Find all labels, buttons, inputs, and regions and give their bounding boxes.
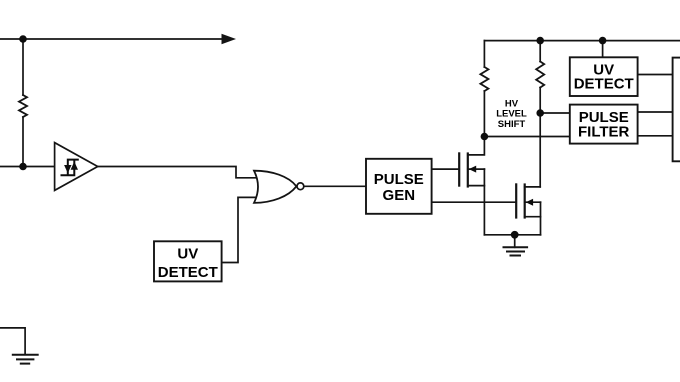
svg-text:FILTER: FILTER — [578, 123, 630, 140]
svg-text:UV: UV — [177, 245, 198, 262]
svg-text:DETECT: DETECT — [158, 264, 218, 281]
svg-text:GEN: GEN — [383, 187, 416, 204]
svg-text:PULSE: PULSE — [374, 171, 424, 188]
svg-text:SHIFT: SHIFT — [498, 119, 526, 130]
svg-text:DETECT: DETECT — [574, 76, 634, 93]
